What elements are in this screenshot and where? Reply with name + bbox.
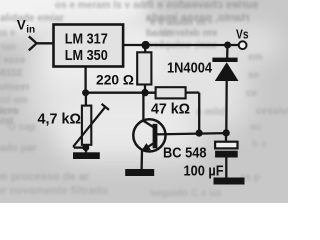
svg-text:1N4004: 1N4004 [167, 60, 212, 76]
svg-text:LM 317: LM 317 [65, 32, 108, 48]
svg-text:BC 548: BC 548 [163, 145, 207, 161]
svg-text:100 µF: 100 µF [184, 163, 224, 179]
svg-text:4,7 kΩ: 4,7 kΩ [38, 111, 82, 128]
svg-text:V: V [17, 18, 26, 33]
svg-text:47 kΩ: 47 kΩ [151, 100, 190, 117]
svg-text:220 Ω: 220 Ω [96, 73, 134, 88]
svg-text:in: in [26, 25, 35, 36]
svg-text:LM 350: LM 350 [65, 48, 108, 64]
svg-text:Vs: Vs [236, 27, 249, 41]
